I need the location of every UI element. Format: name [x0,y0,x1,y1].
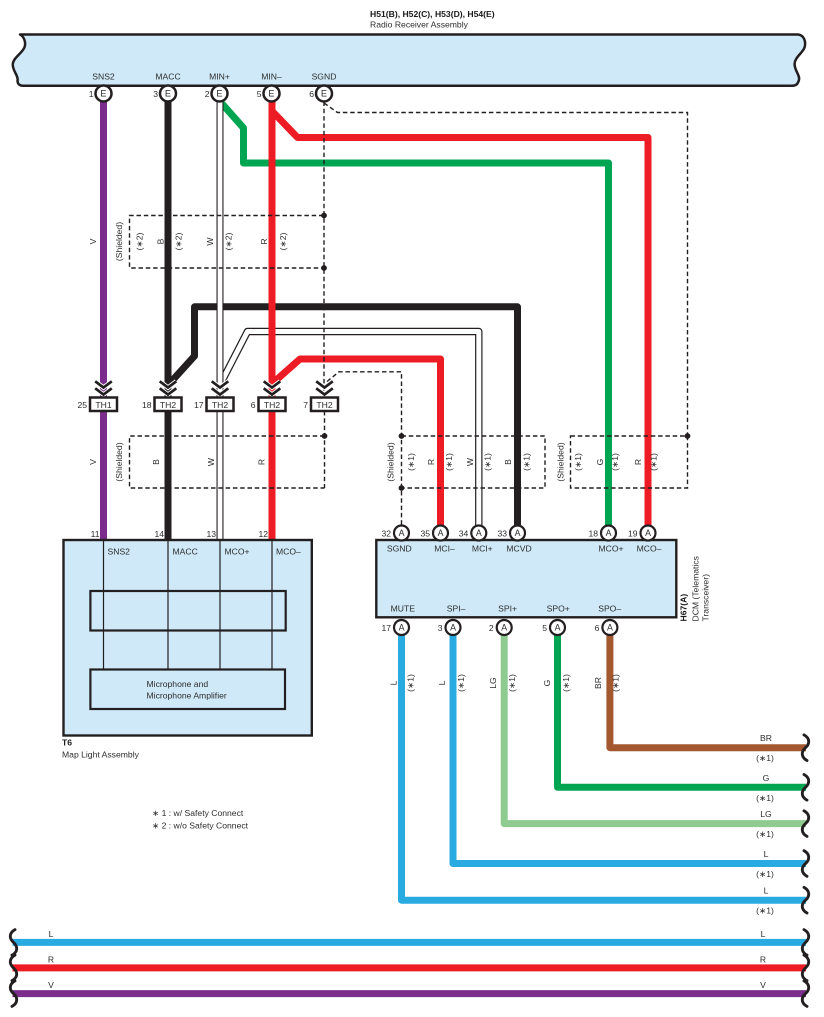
wire G (*1) DCM SPO+ pin 5 to right edge [558,635,807,788]
svg-text:(∗1): (∗1) [649,453,659,471]
wire break right at y=942.4 [802,930,808,956]
node DCM mic shield box bottom [399,485,405,491]
svg-text:A: A [501,623,507,633]
T6 internal wire MACC [167,541,169,670]
wire LG (*1) DCM SPI+ pin 2 to right edge [504,635,806,824]
wire break right at y=863.5 [802,851,808,877]
node shield box (*2) top [321,213,327,219]
wire break left at y=967.9 [10,955,16,981]
wire R (MIN-) radio to TH2 6 [269,102,276,398]
svg-text:Radio Receiver Assembly: Radio Receiver Assembly [370,20,469,30]
svg-text:R: R [257,459,267,465]
T6 inner block microphone amplifier [90,670,285,710]
svg-text:H67(A): H67(A) [679,594,689,622]
svg-text:SPI+: SPI+ [498,604,517,614]
label L MUTE wire right end [756,886,774,916]
svg-text:6: 6 [309,89,314,99]
wire break left at y=942.4 [10,930,16,956]
svg-text:7: 7 [303,400,308,410]
svg-text:11: 11 [91,529,100,539]
wire B (*1) DCM MCVD pin 33 to TH2 18 [171,307,518,526]
svg-text:SNS2: SNS2 [92,72,115,82]
svg-text:3: 3 [153,89,158,99]
svg-text:18: 18 [142,400,152,410]
svg-text:MIN+: MIN+ [209,72,230,82]
svg-text:2: 2 [205,89,210,99]
svg-text:L: L [764,849,769,859]
svg-text:(∗1): (∗1) [573,453,583,471]
node shield box (*2) bottom [321,265,327,271]
svg-text:(∗1): (∗1) [522,453,532,471]
inline connector 18 TH2 [142,381,182,411]
svg-text:SGND: SGND [387,544,412,554]
svg-text:A: A [515,528,521,538]
svg-text:A: A [438,528,444,538]
svg-text:R: R [760,954,766,964]
svg-text:Map Light Assembly: Map Light Assembly [62,750,140,760]
svg-text:B: B [156,238,166,244]
svg-text:MUTE: MUTE [391,604,416,614]
svg-text:L: L [437,680,447,685]
wire R (*1) DCM MCI- pin 35 to TH2 6 [274,359,441,526]
wire R (*1) MIN- to DCM MCO- pin 19 [272,102,648,526]
svg-text:T6: T6 [62,738,72,748]
wire break right at y=967.9 [802,955,808,981]
shield box (*1) DCM mic harness [402,436,546,488]
wire BR (*1) DCM SPO- pin 6 to right edge [610,635,806,748]
label L SPI- wire right end [756,849,774,879]
svg-text:V: V [88,238,98,244]
svg-text:6: 6 [595,623,600,633]
svg-text:(∗1): (∗1) [756,829,774,839]
shield box (*1) DCM MCO harness [571,436,688,488]
svg-text:MIN–: MIN– [261,72,282,82]
svg-text:18: 18 [588,528,598,538]
T6 internal wire SNS2 [103,541,105,670]
pin 1 (E) [89,86,112,102]
svg-text:MACC: MACC [155,72,180,82]
T6 Map Light Assembly box [64,540,312,736]
svg-text:14: 14 [154,529,164,539]
svg-text:TH2: TH2 [264,400,280,410]
pin 18 (A) [588,526,616,541]
svg-text:(∗1): (∗1) [756,753,774,763]
svg-text:(Shielded): (Shielded) [386,442,396,481]
svg-text:E: E [268,89,274,99]
svg-text:E: E [165,89,171,99]
shield drain wire TH2 7 down to shield box [324,411,326,488]
node DCM mic shield box top [399,433,405,439]
svg-text:(∗2): (∗2) [174,233,184,251]
svg-text:TH1: TH1 [95,400,111,410]
svg-text:(∗1): (∗1) [483,453,493,471]
shield box T6 harness [130,436,325,488]
svg-text:A: A [450,623,456,633]
wire break left at y=993.6 [10,981,16,1007]
svg-text:(∗1): (∗1) [406,674,416,692]
svg-text:E: E [216,89,222,99]
wire B (MACC) radio to TH2 18 [165,102,172,398]
svg-text:R: R [48,954,54,964]
shield drain wire SGND pin 6 down to TH2 7 [323,102,325,398]
svg-text:W: W [205,237,215,246]
pin 2 (E) [205,86,228,102]
svg-text:A: A [555,623,561,633]
wire W (MIN+) radio to TH2 17 [217,102,224,398]
svg-text:(∗1): (∗1) [444,453,454,471]
svg-text:(∗1): (∗1) [610,674,620,692]
svg-text:L: L [764,886,769,896]
wire break right at y=787.3 [802,775,808,801]
svg-text:A: A [645,528,651,538]
pin 33 (A) [497,526,525,541]
svg-text:L: L [761,929,766,939]
svg-text:32: 32 [381,528,391,538]
shield drain wire (*1) DCM SGND pin 32 to TH2 7 [327,372,402,526]
svg-text:V: V [88,459,98,465]
svg-text:TH2: TH2 [160,400,176,410]
svg-text:17: 17 [381,623,391,633]
svg-text:L: L [389,680,399,685]
svg-text:V: V [760,980,766,990]
wire break right at y=747.7 [802,735,808,761]
wire L full width bottom [13,939,807,946]
label LG wire right end [756,809,774,839]
svg-text:Transceiver): Transceiver) [701,574,711,622]
svg-text:MCO+: MCO+ [225,547,250,557]
node T6 shield box top [322,433,328,439]
pin 17 (A) [381,620,409,635]
svg-text:(∗1): (∗1) [610,453,620,471]
svg-text:19: 19 [628,528,638,538]
svg-text:(Shielded): (Shielded) [114,442,124,481]
pin 6 (A) [595,620,618,635]
wire L (*1) DCM MUTE pin 17 to right edge [402,635,807,900]
svg-text:R: R [633,459,643,465]
svg-text:MCO–: MCO– [637,544,662,554]
pin 6 (E) [309,86,332,102]
svg-text:5: 5 [542,623,547,633]
shield drain wire (*1) SGND pin 6 to right shield box [324,103,688,436]
svg-text:34: 34 [459,528,469,538]
svg-text:MCVD: MCVD [506,544,531,554]
pin 34 (A) [459,526,487,541]
svg-text:LG: LG [760,809,772,819]
svg-text:MACC: MACC [173,547,198,557]
svg-text:25: 25 [77,400,87,410]
label G wire right end [756,773,774,803]
inline connector 25 TH1 [77,381,117,411]
svg-text:TH2: TH2 [316,400,332,410]
svg-text:(∗1): (∗1) [507,674,517,692]
svg-text:Microphone and: Microphone and [147,679,209,689]
svg-text:G: G [542,679,552,686]
T6 inner block upper [90,591,285,631]
pin 5 (E) [257,86,280,102]
svg-text:(Shielded): (Shielded) [556,442,566,481]
svg-text:W: W [465,457,475,466]
label BR wire right end [756,733,774,763]
svg-text:(Shielded): (Shielded) [114,222,124,261]
pin 2 (A) [489,620,512,635]
svg-text:B: B [151,459,161,465]
svg-text:TH2: TH2 [212,400,228,410]
svg-text:2: 2 [489,623,494,633]
Radio Receiver Assembly band [13,35,805,86]
svg-text:V: V [48,980,54,990]
svg-text:33: 33 [497,528,507,538]
svg-text:SNS2: SNS2 [108,547,131,557]
inline connector 7 TH2 [303,381,338,411]
svg-text:R: R [259,238,269,244]
svg-text:(∗2): (∗2) [278,233,288,251]
pin 32 (A) [381,526,409,541]
wire G (*1) MIN+ to DCM MCO+ pin 18 [221,102,609,526]
svg-text:(∗1): (∗1) [756,793,774,803]
pin 3 (A) [438,620,461,635]
wire W (*1) DCM MCI+ pin 34 to TH2 17 [222,332,479,527]
inline connector 17 TH2 [194,381,234,411]
wire B TH2 18 to T6 pin 14 [165,411,172,540]
svg-text:BR: BR [593,677,603,689]
svg-text:5: 5 [257,89,262,99]
wire L (*1) DCM SPI- pin 3 to right edge [453,635,806,864]
svg-text:6: 6 [251,400,256,410]
svg-text:G: G [595,458,605,465]
svg-text:MCI+: MCI+ [472,544,493,554]
svg-text:A: A [399,528,405,538]
svg-text:A: A [606,528,612,538]
svg-text:(∗2): (∗2) [135,233,145,251]
svg-text:A: A [607,623,613,633]
pin 19 (A) [628,526,656,541]
wire V TH1 to T6 pin 11 [100,411,107,540]
svg-text:(∗1): (∗1) [561,674,571,692]
svg-text:H51(B), H52(C), H53(D), H54(E): H51(B), H52(C), H53(D), H54(E) [370,9,495,19]
wire break right at y=993.6 [802,981,808,1007]
svg-text:SPI–: SPI– [447,604,466,614]
wire V full width bottom [13,990,807,997]
svg-text:B: B [503,459,513,465]
pin 35 (A) [420,526,448,541]
svg-text:MCO+: MCO+ [598,544,623,554]
svg-text:SGND: SGND [312,72,337,82]
svg-text:SPO+: SPO+ [547,604,570,614]
DCM H67(A) box [376,540,676,617]
svg-text:MCO–: MCO– [276,547,301,557]
T6 internal wire MCO- [271,541,273,670]
svg-text:DCM (Telematics: DCM (Telematics [691,556,701,621]
wire break right at y=900.2 [802,887,808,913]
svg-text:A: A [476,528,482,538]
svg-text:L: L [49,929,54,939]
wire R full width bottom [13,964,807,971]
svg-text:(∗2): (∗2) [224,233,234,251]
svg-text:R: R [426,459,436,465]
wire break right at y=823.6 [802,811,808,837]
svg-text:LG: LG [488,677,498,689]
wire W TH2 17 to T6 pin 13 [217,411,224,540]
svg-text:E: E [100,89,106,99]
inline connector 6 TH2 [251,381,286,411]
svg-text:(∗1): (∗1) [756,906,774,916]
wire V (SNS2) radio to TH1 [100,102,107,398]
pin 5 (A) [542,620,565,635]
svg-text:SPO–: SPO– [598,604,621,614]
T6 internal wire MCO+ [219,541,221,670]
svg-text:BR: BR [760,733,772,743]
svg-text:∗ 2 : w/o Safety Connect: ∗ 2 : w/o Safety Connect [152,821,249,831]
svg-text:W: W [206,457,216,466]
svg-text:Microphone Amplifier: Microphone Amplifier [147,691,227,701]
svg-text:MCI–: MCI– [434,544,455,554]
svg-text:13: 13 [206,529,216,539]
svg-text:A: A [399,623,405,633]
svg-text:∗ 1 : w/ Safety Connect: ∗ 1 : w/ Safety Connect [152,808,244,818]
shield box (*2) radio harness [130,216,324,269]
svg-text:17: 17 [194,400,204,410]
svg-text:35: 35 [420,528,430,538]
pin 3 (E) [153,86,176,102]
svg-text:(∗1): (∗1) [406,453,416,471]
wire R TH2 6 to T6 pin 12 [269,411,276,540]
node DCM MCO shield box top [685,433,691,439]
svg-text:(∗1): (∗1) [456,674,466,692]
svg-text:E: E [321,89,327,99]
svg-text:1: 1 [89,89,94,99]
svg-text:G: G [763,773,770,783]
svg-text:3: 3 [438,623,443,633]
svg-text:12: 12 [258,529,268,539]
svg-text:(∗1): (∗1) [756,869,774,879]
